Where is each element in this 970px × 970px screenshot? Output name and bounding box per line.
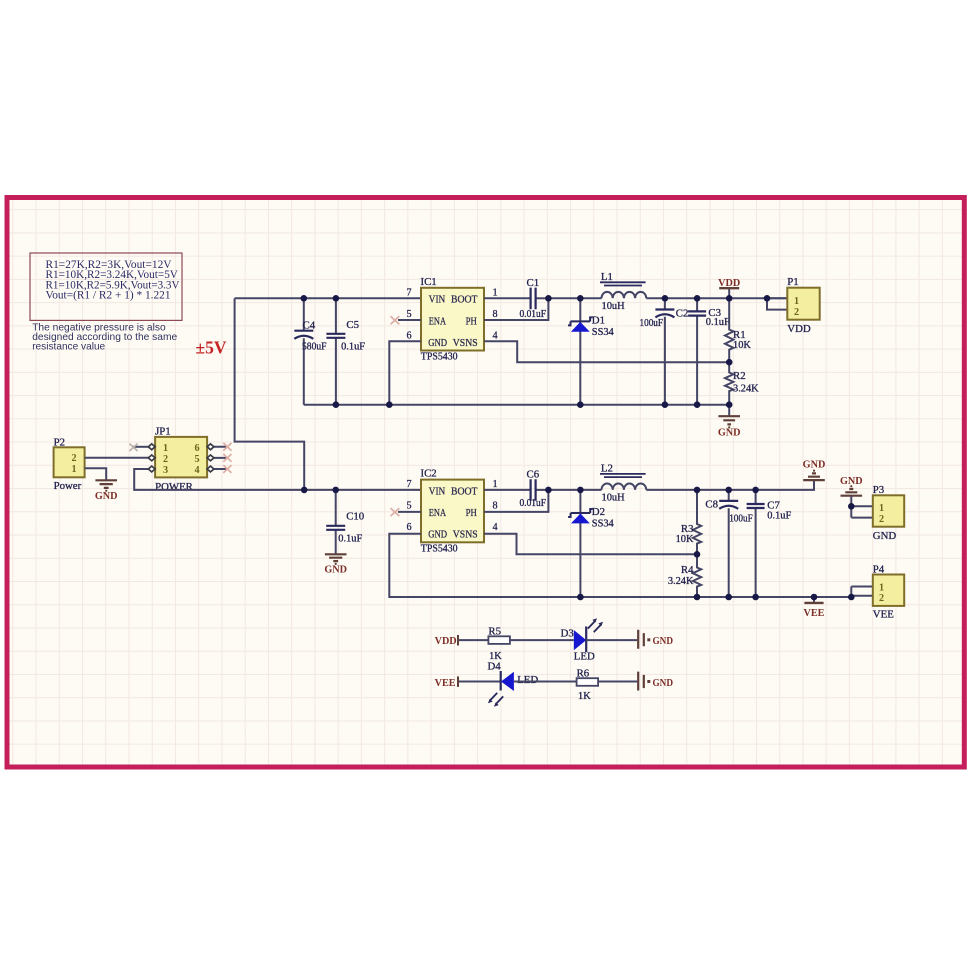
svg-text:100uF: 100uF [729, 513, 753, 524]
svg-text:6: 6 [407, 331, 412, 342]
svg-text:7: 7 [407, 479, 412, 490]
svg-text:GND: GND [653, 678, 674, 689]
svg-text:2: 2 [879, 593, 884, 604]
capacitor C4 plates [294, 330, 313, 332]
svg-text:10uH: 10uH [602, 301, 626, 312]
inductor L1 [602, 292, 647, 298]
wire R6 to GND [598, 681, 637, 683]
svg-text:PH: PH [466, 316, 477, 327]
svg-text:TPS5430: TPS5430 [421, 350, 458, 362]
junction dots converter 1 ground rail [333, 401, 733, 408]
svg-text:1: 1 [72, 464, 77, 475]
svg-text:C2: C2 [676, 308, 689, 320]
junction dot feedback node R3 R4 [694, 551, 701, 558]
svg-text:3.24K: 3.24K [668, 576, 694, 587]
svg-text:VEE: VEE [435, 678, 456, 689]
LED D3 cathode bar [585, 627, 587, 653]
svg-text:VSNS: VSNS [453, 338, 478, 349]
svg-text:D2: D2 [592, 506, 605, 518]
svg-text:P1: P1 [787, 276, 798, 288]
svg-text:4: 4 [493, 522, 498, 533]
svg-text:1: 1 [493, 479, 498, 490]
svg-text:TPS5430: TPS5430 [421, 542, 458, 554]
svg-text:P4: P4 [873, 563, 885, 575]
svg-text:1K: 1K [578, 691, 591, 702]
connector P1 box [787, 288, 819, 320]
svg-text:C1: C1 [527, 277, 540, 289]
svg-text:IC2: IC2 [421, 468, 437, 480]
svg-text:BOOT: BOOT [451, 486, 478, 497]
wire L1 to VDD rail [646, 297, 787, 299]
sheet background [5, 195, 967, 770]
svg-text:L2: L2 [601, 462, 613, 474]
svg-text:ENA: ENA [429, 508, 446, 519]
svg-text:GND: GND [840, 476, 863, 487]
diode D1 schottky cathode bar [568, 317, 593, 325]
wire C2 bottom [664, 317, 666, 405]
diode D1 triangle [571, 322, 590, 332]
wire P2 pin1 to ground [85, 468, 107, 480]
svg-text:10uH: 10uH [602, 492, 626, 503]
svg-text:R6: R6 [577, 667, 590, 679]
power port VDD stem [728, 288, 730, 298]
svg-text:±5V: ±5V [196, 338, 227, 358]
svg-text:R2: R2 [733, 370, 746, 382]
svg-text:D1: D1 [592, 315, 605, 327]
svg-text:C8: C8 [705, 499, 718, 511]
wire C6 to switch node [536, 489, 548, 491]
no-connect X at JP1 pin1 [129, 444, 137, 451]
svg-text:VEE: VEE [873, 608, 894, 620]
svg-text:PH: PH [466, 508, 477, 519]
svg-text:5: 5 [195, 454, 200, 465]
note text box [30, 253, 182, 320]
svg-text:LED: LED [517, 674, 538, 686]
no-connect X at JP1 pin6 [223, 443, 231, 451]
connector P4 box [873, 575, 904, 606]
svg-text:2: 2 [879, 514, 884, 525]
svg-text:8: 8 [493, 501, 498, 512]
wire C7 top [755, 490, 757, 504]
wire C3 top [696, 298, 698, 311]
svg-text:0.1uF: 0.1uF [338, 533, 362, 544]
svg-text:L1: L1 [601, 271, 613, 283]
op-amp/regulator IC1 box [421, 288, 484, 351]
svg-text:SS34: SS34 [592, 519, 615, 530]
svg-text:C10: C10 [346, 511, 364, 523]
svg-text:P2: P2 [54, 436, 65, 448]
capacitor C8 plates [719, 500, 738, 502]
svg-text:GND: GND [718, 428, 741, 439]
no-connect X at IC1 ENA [391, 316, 400, 324]
JP1 pin diamond 6 [207, 444, 214, 450]
svg-text:5: 5 [407, 501, 412, 512]
svg-text:3.24K: 3.24K [733, 383, 759, 394]
svg-text:VEE: VEE [804, 608, 825, 619]
svg-text:0.01uF: 0.01uF [520, 309, 547, 320]
svg-text:5: 5 [407, 309, 412, 320]
capacitor C5 plates [326, 334, 345, 338]
wire JP1 right stubs pins 6 5 4 [214, 447, 227, 469]
power port VEE bar [804, 602, 823, 604]
svg-text:6: 6 [195, 443, 200, 454]
JP1 pin diamond 5 [207, 455, 214, 461]
wire JP1 pin3 to lower input rail [134, 469, 421, 490]
svg-text:4: 4 [493, 331, 498, 342]
wire IC1 ENA stub [398, 319, 421, 321]
no-connect X at IC2 ENA [391, 508, 400, 516]
svg-text:P3: P3 [873, 484, 884, 496]
wire C4 bottom [303, 338, 305, 405]
wire IC2 ENA stub [398, 511, 421, 513]
power port VDD bar LED row [457, 635, 459, 646]
wire P4 pin1 [851, 587, 873, 598]
svg-text:VIN: VIN [429, 295, 446, 306]
LED D4 light arrows [490, 693, 504, 704]
connector P2 box [54, 447, 85, 477]
wire input riser from JP1 to +5V rail [235, 298, 305, 490]
svg-text:D4: D4 [488, 661, 502, 673]
wire JP1 pin1 stub [133, 446, 148, 448]
wire C8 top [728, 490, 730, 501]
svg-text:0.1uF: 0.1uF [767, 510, 791, 521]
power port VDD bar [719, 287, 739, 289]
ground symbol below P2 [95, 480, 117, 488]
wire switch node rail to L2 [548, 489, 601, 491]
junction dot feedback node R1 R2 [726, 359, 733, 366]
wire C4 top [303, 298, 305, 330]
wire IC2 PH to switch node [484, 490, 548, 512]
wire P1 pin2 [767, 298, 787, 309]
svg-text:3: 3 [163, 465, 168, 476]
wire C1 to switch node [536, 297, 548, 299]
svg-text:0.1uF: 0.1uF [706, 317, 730, 328]
wire D4 to R6 [514, 681, 577, 683]
capacitor C2 plates [655, 308, 674, 310]
svg-text:7: 7 [407, 287, 412, 298]
svg-text:VDD: VDD [718, 278, 740, 289]
no-connect X at JP1 pin4 [223, 465, 231, 473]
connector P3 box [873, 495, 904, 526]
svg-text:ENA: ENA [429, 316, 446, 327]
ground symbol above P3 [841, 489, 863, 496]
svg-text:POWER: POWER [155, 481, 194, 493]
diode D2 schottky cathode bar [568, 509, 593, 517]
wire C8 bottom [728, 508, 730, 597]
wire IC2 VSNS feedback [484, 534, 697, 555]
LED D3 light arrows [588, 621, 602, 632]
no-connect X at JP1 pin5 [223, 454, 231, 462]
svg-text:VSNS: VSNS [453, 530, 478, 541]
JP1 pin diamond 2 [148, 455, 155, 461]
svg-text:2: 2 [72, 453, 77, 464]
svg-text:100uF: 100uF [640, 318, 664, 329]
wire C3 bottom [696, 316, 698, 405]
svg-text:R5: R5 [488, 626, 501, 638]
ground symbol right of R6 [638, 672, 644, 691]
svg-text:D3: D3 [561, 627, 574, 639]
wire P1 pin1 [767, 297, 787, 299]
wire ground to P3 pins [851, 496, 873, 518]
wire VIN rail converter 1 [235, 297, 421, 299]
svg-text:C4: C4 [303, 319, 316, 331]
power port VEE stem [813, 597, 815, 603]
capacitor C10 plates [326, 526, 345, 530]
wire IC2 BOOT to C6 [484, 489, 530, 491]
svg-text:resistance value: resistance value [32, 342, 105, 353]
svg-text:Power: Power [54, 480, 82, 492]
svg-text:1: 1 [879, 503, 884, 514]
ground symbol right of D3 [638, 630, 644, 649]
svg-text:10K: 10K [676, 534, 694, 545]
wire D3 to GND [586, 639, 637, 641]
wire P4 pin2 [851, 595, 873, 597]
svg-text:1: 1 [794, 296, 799, 307]
resistor R1 [725, 298, 733, 362]
capacitor C6 plates [531, 479, 536, 501]
svg-text:4: 4 [195, 465, 200, 476]
svg-text:IC1: IC1 [421, 276, 437, 288]
ground symbol below R2 stem [728, 405, 730, 416]
svg-text:R4: R4 [681, 564, 694, 576]
wire L2 to GND rail right [646, 480, 814, 490]
junction dots VEE rail [577, 594, 854, 601]
junction dots converter 1 top rail [301, 295, 771, 302]
ground symbol below R2 [718, 416, 740, 424]
diode D2 vertical wire [579, 490, 581, 597]
LED D4 triangle [501, 672, 514, 691]
wire switch node rail to L1 [548, 297, 601, 299]
JP1 pin diamond 3 [148, 466, 155, 472]
svg-text:6: 6 [407, 522, 412, 533]
wire IC1 VSNS feedback [484, 341, 729, 362]
svg-text:SS34: SS34 [592, 327, 615, 338]
svg-text:GND: GND [653, 636, 674, 647]
svg-text:Vout=(R1 / R2 + 1) * 1.221: Vout=(R1 / R2 + 1) * 1.221 [46, 290, 171, 302]
svg-text:GND: GND [95, 491, 118, 502]
wire IC1 BOOT to C1 [484, 297, 530, 299]
diode D2 triangle [571, 514, 590, 524]
svg-text:GND: GND [803, 460, 826, 471]
svg-text:8: 8 [493, 309, 498, 320]
LED D4 cathode bar [500, 671, 502, 691]
svg-text:GND: GND [324, 564, 347, 575]
wire P2 pin2 to JP1 [85, 457, 149, 459]
svg-text:GND: GND [428, 338, 447, 349]
wire IC1 GND pin6 to ground rail [389, 341, 421, 404]
svg-text:GND: GND [873, 530, 897, 542]
wire R5 to D3 [510, 639, 574, 641]
svg-text:10K: 10K [733, 340, 751, 351]
wire C10 bottom [335, 530, 337, 554]
inductor L2 [602, 483, 647, 489]
wire C5 top [335, 298, 337, 334]
ground symbol below C10 [325, 554, 347, 561]
capacitor C1 plates [531, 288, 536, 310]
sheet border frame [7, 198, 964, 768]
wire VDD to R5 [459, 639, 488, 641]
connector JP1 box [155, 437, 207, 478]
JP1 pin diamond 1 [148, 444, 155, 450]
capacitor C7 plates [747, 504, 765, 508]
svg-text:VDD: VDD [787, 323, 811, 335]
resistor R5 box [488, 636, 510, 644]
svg-text:GND: GND [428, 530, 447, 541]
diode D1 vertical wire [579, 298, 581, 404]
capacitor C3 plates [688, 311, 706, 315]
svg-text:C6: C6 [527, 468, 540, 480]
wire C2 top [664, 298, 666, 309]
svg-text:1: 1 [879, 583, 884, 594]
wire VEE to D4 [459, 681, 501, 683]
svg-text:2: 2 [794, 307, 799, 318]
resistor R6 box [577, 678, 599, 686]
wire IC1 PH to switch node [484, 298, 548, 320]
resistor R3 [693, 490, 701, 554]
wire C10 top [335, 490, 337, 526]
svg-text:1: 1 [163, 443, 168, 454]
resistor R4 [693, 554, 701, 597]
svg-text:580uF: 580uF [302, 341, 327, 352]
wire IC2 GND pin6 to VEE rail [389, 534, 851, 597]
svg-text:VIN: VIN [429, 486, 446, 497]
svg-text:2: 2 [163, 454, 168, 465]
svg-text:BOOT: BOOT [451, 295, 478, 306]
svg-text:JP1: JP1 [155, 426, 171, 438]
power port VEE bar LED row [457, 676, 459, 687]
JP1 pin diamond 4 [207, 466, 214, 472]
wire GND rail converter 1 [304, 404, 729, 406]
svg-text:0.01uF: 0.01uF [520, 498, 547, 509]
junction dots converter 2 top rail [301, 487, 759, 494]
op-amp/regulator IC2 box [421, 480, 484, 543]
svg-text:LED: LED [574, 651, 595, 663]
junction dot P3 ground tie [848, 503, 855, 510]
svg-text:1: 1 [493, 287, 498, 298]
ground symbol above rail at x=814 [803, 473, 825, 480]
wire C5 bottom [335, 338, 337, 405]
resistor R2 [725, 362, 733, 405]
svg-text:C5: C5 [346, 319, 359, 331]
svg-text:0.1uF: 0.1uF [341, 342, 365, 353]
LED D3 triangle [574, 630, 586, 650]
wire C7 bottom [755, 508, 757, 597]
svg-text:VDD: VDD [435, 636, 457, 647]
